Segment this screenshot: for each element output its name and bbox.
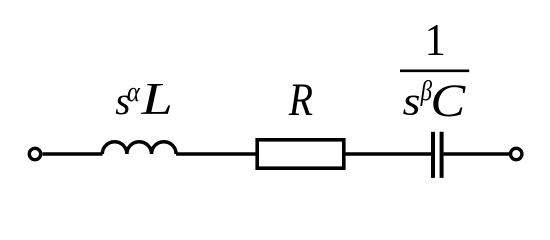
node terminal right bbox=[511, 148, 522, 159]
wire from capacitor to right terminal bbox=[444, 152, 509, 156]
resistor R1 bbox=[257, 140, 344, 168]
value label s^alpha L for inductor bbox=[115, 74, 173, 125]
value label R for resistor bbox=[288, 74, 313, 126]
denominator s^beta C bbox=[403, 74, 466, 126]
svg-text:α: α bbox=[127, 75, 141, 107]
inductor L1 (s^alpha L) bbox=[102, 142, 176, 154]
svg-text:L: L bbox=[141, 74, 173, 125]
node terminal left bbox=[29, 148, 40, 159]
svg-text:C: C bbox=[430, 74, 466, 126]
value label 1/(s^beta C) for capacitor : numerator 1 bbox=[425, 14, 446, 65]
svg-text:1: 1 bbox=[425, 14, 446, 65]
fraction bar bbox=[400, 69, 469, 72]
wire from left terminal to inductor bbox=[43, 152, 103, 156]
wire from inductor to resistor bbox=[176, 152, 257, 156]
capacitor C1 plates bbox=[433, 132, 442, 178]
svg-text:R: R bbox=[288, 74, 313, 126]
wire from resistor to capacitor bbox=[344, 152, 431, 156]
svg-text:s: s bbox=[403, 80, 421, 124]
